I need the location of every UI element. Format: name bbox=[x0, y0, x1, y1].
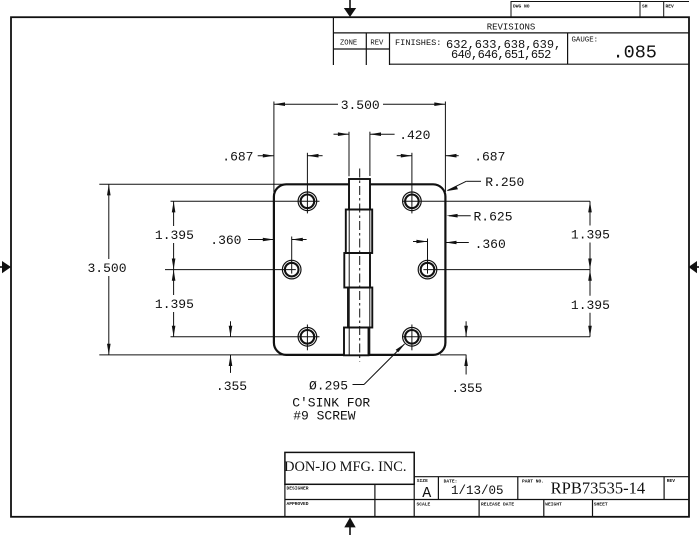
svg-text:.355: .355 bbox=[451, 381, 482, 396]
bottom-left hole column line bbox=[306, 325, 308, 351]
knuckle 5 bbox=[344, 328, 369, 356]
title block company box bbox=[284, 452, 414, 484]
svg-text:DESIGNER: DESIGNER bbox=[287, 485, 309, 491]
dimension .360 left bbox=[210, 233, 306, 248]
svg-text:SCALE: SCALE bbox=[417, 501, 431, 507]
svg-text:3.500: 3.500 bbox=[341, 98, 380, 113]
dimension 1.395 right top bbox=[571, 201, 610, 269]
svg-text:#9 SCREW: #9 SCREW bbox=[293, 409, 356, 424]
dimension .687 left bbox=[222, 150, 322, 165]
extension line hinge bottom edge (right) bbox=[440, 354, 466, 356]
bottom hole row line right bbox=[403, 336, 590, 338]
knuckle 1 bbox=[349, 179, 370, 210]
hole mid-right bbox=[418, 260, 437, 279]
svg-text:640,646,651,652: 640,646,651,652 bbox=[451, 48, 551, 62]
dimension .355 left bbox=[216, 321, 247, 394]
dimension 1.395 right bottom bbox=[571, 270, 610, 337]
svg-text:.355: .355 bbox=[216, 379, 247, 394]
bottom-right hole column line bbox=[411, 325, 413, 351]
svg-text:SHEET: SHEET bbox=[594, 501, 608, 507]
svg-text:SIZE: SIZE bbox=[417, 478, 428, 484]
svg-text:GAUGE:: GAUGE: bbox=[572, 37, 599, 45]
extension line hinge top edge (left) bbox=[99, 183, 287, 185]
title block designer/approved rows bbox=[285, 452, 689, 516]
svg-text:REVISIONS: REVISIONS bbox=[487, 23, 536, 33]
hinge right leaf outline bbox=[369, 184, 446, 355]
top-left hole column line bbox=[306, 153, 308, 214]
dimension 1.395 left bottom bbox=[155, 270, 194, 337]
svg-text:DWG NO: DWG NO bbox=[513, 4, 530, 10]
svg-text:A: A bbox=[422, 485, 431, 502]
extension line hinge bottom edge (left) bbox=[99, 354, 287, 356]
top hole row line left bbox=[171, 200, 320, 202]
dimension 3.500 top bbox=[274, 98, 446, 113]
barrel width extension line left bbox=[348, 132, 350, 177]
svg-text:REV: REV bbox=[666, 4, 675, 10]
revisions table bbox=[333, 17, 689, 65]
svg-text:.687: .687 bbox=[222, 150, 253, 165]
extension line hinge right edge bbox=[444, 102, 446, 193]
svg-text:.420: .420 bbox=[399, 128, 430, 143]
barrel width extension line right bbox=[369, 132, 371, 176]
hole bottom-left bbox=[298, 328, 317, 347]
top-right hole column line bbox=[411, 153, 413, 214]
registration mark top center bbox=[344, 0, 356, 17]
mid-left hole column line bbox=[291, 237, 293, 274]
svg-text:.687: .687 bbox=[474, 150, 505, 165]
svg-text:1.395: 1.395 bbox=[155, 297, 194, 312]
hole top-right bbox=[403, 192, 422, 211]
svg-text:ZONE: ZONE bbox=[340, 40, 357, 48]
dimension 3.500 left vertical bbox=[87, 184, 126, 355]
svg-text:1.395: 1.395 bbox=[571, 228, 610, 243]
hinge pin centerline bbox=[359, 169, 361, 362]
svg-text:.360: .360 bbox=[475, 237, 506, 252]
svg-text:R.250: R.250 bbox=[485, 175, 524, 190]
registration mark bottom center bbox=[344, 517, 355, 535]
svg-text:.360: .360 bbox=[210, 233, 241, 248]
knuckle 4 bbox=[348, 288, 372, 328]
registration mark right center bbox=[689, 261, 699, 273]
dimension 1.395 left top bbox=[155, 201, 194, 269]
svg-text:PART NO.: PART NO. bbox=[522, 479, 544, 485]
hole top-left bbox=[298, 192, 317, 211]
svg-text:RPB73535-14: RPB73535-14 bbox=[551, 478, 645, 497]
middle hole row line right bbox=[423, 269, 590, 271]
hole mid-left bbox=[282, 260, 301, 279]
svg-text:FINISHES:: FINISHES: bbox=[395, 38, 441, 48]
top hole row line right bbox=[403, 200, 590, 202]
registration mark left center bbox=[0, 261, 11, 273]
middle hole row line left bbox=[165, 269, 296, 271]
title block size/date/part rows bbox=[414, 477, 689, 502]
mid-right hole column line bbox=[427, 239, 429, 274]
barrel inner edge lines bbox=[348, 179, 350, 355]
svg-text:APPROVED: APPROVED bbox=[287, 501, 309, 507]
hinge left leaf outline bbox=[274, 184, 349, 355]
dimension .687 right bbox=[397, 150, 506, 165]
dimension .360 right bbox=[413, 237, 506, 252]
leader hole callout bbox=[353, 343, 406, 384]
svg-text:SH: SH bbox=[642, 4, 648, 10]
svg-text:DON-JO MFG. INC.: DON-JO MFG. INC. bbox=[284, 459, 406, 475]
svg-text:3.500: 3.500 bbox=[87, 261, 126, 276]
svg-text:.085: .085 bbox=[613, 43, 657, 64]
dimension .420 bbox=[334, 128, 431, 143]
svg-text:REV: REV bbox=[667, 478, 676, 484]
title block scale/release/weight/sheet row bbox=[417, 500, 608, 517]
leader R.250 bbox=[446, 175, 524, 191]
top strip dwg-no box bbox=[511, 2, 689, 18]
svg-text:REV: REV bbox=[370, 40, 384, 48]
extension line hinge left edge bbox=[273, 102, 275, 193]
svg-text:1.395: 1.395 bbox=[571, 298, 610, 313]
hole bottom-right bbox=[403, 328, 422, 347]
svg-text:Ø.295: Ø.295 bbox=[309, 379, 348, 394]
knuckle 2 bbox=[346, 210, 372, 254]
svg-text:R.625: R.625 bbox=[473, 209, 512, 224]
knuckle 3 bbox=[344, 253, 370, 288]
svg-text:RELEASE DATE: RELEASE DATE bbox=[481, 501, 514, 507]
svg-text:1.395: 1.395 bbox=[155, 228, 194, 243]
svg-text:WEIGHT: WEIGHT bbox=[545, 501, 562, 507]
svg-text:1/13/05: 1/13/05 bbox=[451, 484, 504, 498]
bottom hole row line left bbox=[171, 336, 320, 338]
dimension .355 right bbox=[451, 321, 482, 396]
leader R.625 bbox=[447, 209, 513, 224]
